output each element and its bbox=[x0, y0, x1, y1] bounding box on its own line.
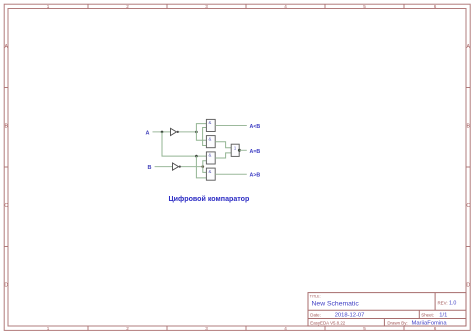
wire A branch down to row y156 bbox=[162, 132, 206, 156]
right edge zone ticks bbox=[466, 88, 470, 247]
svg-text:EasyEDA V5.8.22: EasyEDA V5.8.22 bbox=[310, 320, 345, 325]
svg-text:D: D bbox=[4, 282, 8, 288]
wire nB from inverter U2 to junction J3 bbox=[181, 166, 203, 168]
wire G3 output to or-gate lower input bbox=[215, 153, 231, 158]
wire vertical G1 lower input to G2 lower input bbox=[203, 128, 207, 146]
top edge zone ticks bbox=[88, 4, 404, 8]
svg-text:B: B bbox=[466, 123, 470, 129]
svg-text:A: A bbox=[4, 44, 8, 50]
junction J2 on A row bbox=[195, 155, 198, 158]
svg-text:5: 5 bbox=[363, 326, 366, 331]
svg-text:A=B: A=B bbox=[250, 149, 261, 155]
svg-text:4: 4 bbox=[284, 4, 287, 9]
wire J1 up to gate G1 upper input bbox=[196, 124, 206, 132]
svg-text:B: B bbox=[4, 123, 8, 129]
wire J1 down to gate G2 upper input bbox=[196, 132, 206, 140]
svg-text:REV:: REV: bbox=[438, 300, 448, 305]
wire J2 down to gate G4 lower input bbox=[196, 156, 206, 178]
title block frame bbox=[308, 293, 466, 326]
svg-text:6: 6 bbox=[434, 326, 437, 331]
junction A branch bbox=[161, 131, 164, 134]
svg-text:A>B: A>B bbox=[250, 173, 261, 179]
svg-text:3: 3 bbox=[205, 326, 208, 331]
junction J3 bbox=[202, 165, 205, 168]
wire J3 up to gate G3 lower input bbox=[203, 161, 207, 167]
svg-text:New Schematic: New Schematic bbox=[312, 300, 360, 307]
svg-text:1.0: 1.0 bbox=[449, 300, 456, 306]
wire G2 output to or-gate upper input bbox=[215, 142, 231, 148]
svg-text:Drawn By:: Drawn By: bbox=[387, 320, 407, 325]
svg-text:2: 2 bbox=[126, 4, 129, 9]
svg-text:6: 6 bbox=[434, 4, 437, 9]
svg-text:Sheet:: Sheet: bbox=[421, 312, 434, 317]
svg-text:A: A bbox=[146, 131, 150, 137]
svg-text:B: B bbox=[148, 165, 152, 171]
junction or-gate output bbox=[238, 149, 241, 152]
svg-text:D: D bbox=[466, 282, 470, 288]
svg-text:4: 4 bbox=[284, 326, 287, 331]
and-gate G1 bbox=[206, 119, 215, 131]
left edge zone letters bbox=[4, 44, 8, 289]
svg-text:A<B: A<B bbox=[250, 124, 261, 130]
wire G1 output to label A<B bbox=[215, 125, 247, 127]
svg-text:TITLE:: TITLE: bbox=[310, 294, 321, 298]
and-gate G4 bbox=[206, 168, 215, 180]
svg-text:1/1: 1/1 bbox=[439, 312, 447, 318]
bottom edge zone ticks bbox=[88, 326, 404, 330]
top edge zone numbers bbox=[47, 4, 437, 9]
svg-text:2018-12-07: 2018-12-07 bbox=[335, 312, 365, 318]
svg-text:A: A bbox=[466, 44, 470, 50]
wire nA from inverter U1 to junction J1 bbox=[179, 131, 196, 133]
junction J1 bbox=[195, 131, 198, 134]
svg-text:2: 2 bbox=[126, 326, 129, 331]
svg-text:1: 1 bbox=[47, 326, 50, 331]
svg-text:3: 3 bbox=[205, 4, 208, 9]
and-gate G2 bbox=[206, 136, 215, 148]
wire G4 output to label A>B bbox=[215, 173, 247, 175]
wire B input bbox=[155, 166, 173, 168]
bottom edge zone numbers bbox=[47, 326, 437, 331]
svg-text:&: & bbox=[209, 136, 212, 141]
left edge zone ticks bbox=[4, 88, 8, 247]
svg-text:C: C bbox=[4, 203, 8, 209]
svg-text:&: & bbox=[209, 169, 212, 174]
wire J3 down to gate G4 upper input bbox=[203, 167, 207, 173]
svg-text:Цифровой компаратор: Цифровой компаратор bbox=[169, 195, 251, 203]
svg-text:5: 5 bbox=[363, 4, 366, 9]
inverter U2 (B) bbox=[173, 163, 181, 170]
svg-text:&: & bbox=[209, 153, 212, 158]
svg-text:C: C bbox=[466, 203, 470, 209]
or-gate G5 bbox=[231, 144, 239, 156]
svg-text:Date:: Date: bbox=[310, 312, 321, 317]
svg-text:&: & bbox=[209, 120, 212, 125]
wire A input bbox=[153, 131, 171, 133]
svg-text:MariiaFomina: MariiaFomina bbox=[412, 320, 448, 326]
inverter U1 (A) bbox=[171, 128, 179, 135]
and-gate G3 bbox=[206, 152, 215, 164]
wire or-gate output to label A=B bbox=[240, 149, 247, 151]
svg-text:1: 1 bbox=[47, 4, 50, 9]
right edge zone letters bbox=[466, 44, 470, 289]
